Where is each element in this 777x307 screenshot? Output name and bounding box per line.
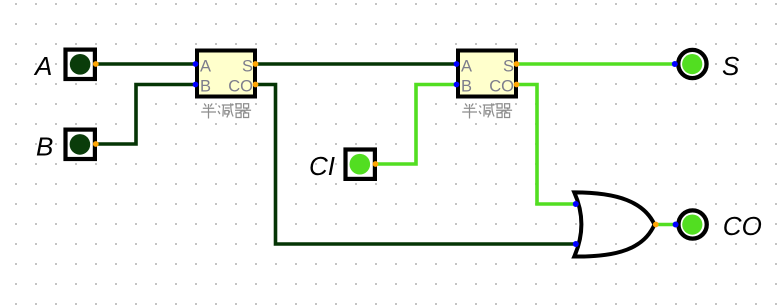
half subtractor U1 body: [197, 51, 255, 97]
svg-text:B: B: [36, 132, 53, 162]
input CI button: [346, 150, 375, 179]
input B button: [66, 130, 95, 159]
label CI: [309, 151, 335, 181]
svg-text:CO: CO: [228, 78, 253, 96]
pin U1.CO (output): [253, 82, 259, 88]
svg-text:B: B: [200, 78, 211, 96]
label CO: [723, 211, 762, 241]
svg-text:A: A: [461, 58, 472, 76]
pin: output S input port: [672, 61, 678, 67]
pin: output CO input port: [673, 222, 679, 228]
svg-text:CI: CI: [309, 151, 335, 181]
pin U2.CO (output): [514, 82, 520, 88]
pin label U2 S: [503, 58, 514, 76]
pin label U1 B: [200, 78, 211, 96]
svg-text:A: A: [200, 58, 211, 76]
svg-text:CO: CO: [489, 78, 514, 96]
pin label U2 A: [461, 58, 472, 76]
wire CI to U2.B (logic 1): [376, 85, 456, 165]
svg-text:S: S: [722, 51, 740, 81]
wire U1.S to U2.A (logic 0): [257, 62, 456, 66]
svg-text:S: S: [242, 58, 253, 76]
pin: input CI output port: [373, 161, 379, 167]
input A button: [66, 50, 95, 79]
pin label U2 B: [461, 78, 472, 96]
svg-text:A: A: [33, 51, 52, 81]
pin label U2 CO: [489, 78, 514, 96]
pin U1.B (input): [193, 82, 199, 88]
pin U2.B (input): [454, 82, 460, 88]
svg-text:B: B: [461, 78, 472, 96]
output S indicator: [678, 50, 706, 78]
half subtractor U2 body: [458, 51, 516, 97]
pin: input A output port: [93, 61, 99, 67]
wire U2.S to output S (logic 1): [517, 62, 675, 66]
value label U1: 半减器 (half subtractor): [201, 103, 251, 118]
label S: [722, 51, 740, 81]
wire A to U1.A (net A, logic 0): [96, 62, 195, 66]
label B: [36, 132, 53, 162]
pin label U1 S: [242, 58, 253, 76]
pin: input B output port: [93, 141, 99, 147]
pin: OR gate input 1: [573, 201, 579, 207]
value label U2: 半减器 (half subtractor): [462, 103, 512, 118]
svg-text:CO: CO: [723, 211, 762, 241]
output CO indicator: [678, 210, 706, 238]
label A: [33, 51, 52, 81]
pin U2.S (output): [514, 61, 520, 67]
pin U1.A (input): [193, 61, 199, 67]
OR gate U3: [574, 192, 654, 256]
wire U2.CO to OR gate input 1 (logic 1): [517, 85, 576, 205]
wire B to U1.B (net B, logic 0): [96, 85, 195, 145]
pin label U1 CO: [228, 78, 253, 96]
wire U1.CO to OR gate input 2 (logic 0): [257, 85, 576, 245]
pin U1.S (output): [253, 61, 259, 67]
pin U2.A (input): [454, 61, 460, 67]
wire OR gate output to output CO (logic 1): [655, 223, 676, 227]
pin label U1 A: [200, 58, 211, 76]
pin: OR gate output: [653, 222, 659, 228]
svg-text:S: S: [503, 58, 514, 76]
pin: OR gate input 2: [573, 241, 579, 247]
